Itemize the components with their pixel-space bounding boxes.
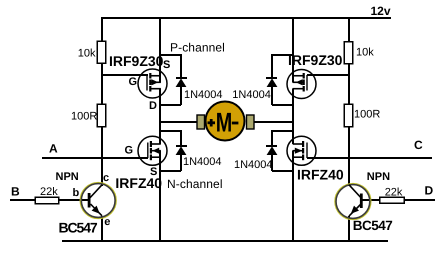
svg-text:B: B (11, 185, 20, 199)
svg-text:C: C (414, 138, 423, 152)
svg-text:c: c (103, 172, 109, 184)
svg-text:BC547: BC547 (59, 219, 98, 235)
svg-text:1N4004: 1N4004 (184, 89, 223, 101)
svg-text:M: M (216, 108, 233, 138)
svg-text:P-channel: P-channel (170, 41, 225, 55)
svg-text:IRF9Z30: IRF9Z30 (109, 53, 164, 69)
svg-text:NPN: NPN (56, 171, 79, 183)
svg-text:A: A (49, 142, 58, 156)
svg-text:N-channel: N-channel (167, 177, 223, 191)
svg-text:1N4004: 1N4004 (232, 89, 271, 101)
svg-text:IRF9Z30: IRF9Z30 (288, 52, 343, 68)
svg-text:IRFZ40: IRFZ40 (115, 175, 162, 191)
svg-text:100R: 100R (71, 111, 97, 123)
svg-text:NPN: NPN (367, 171, 390, 183)
svg-text:10k: 10k (356, 47, 374, 59)
svg-text:G: G (129, 76, 138, 88)
svg-text:12v: 12v (371, 4, 391, 18)
svg-text:e: e (104, 216, 110, 228)
svg-text:b: b (73, 187, 80, 199)
svg-text:IRFZ40: IRFZ40 (297, 167, 344, 183)
svg-text:G: G (125, 145, 134, 157)
svg-text:1N4004: 1N4004 (234, 159, 273, 171)
svg-text:22k: 22k (385, 187, 403, 199)
svg-text:BC547: BC547 (353, 218, 393, 233)
svg-text:10k: 10k (78, 48, 96, 60)
svg-text:22k: 22k (40, 186, 58, 198)
svg-text:100R: 100R (354, 109, 380, 121)
svg-text:1N4004: 1N4004 (183, 156, 222, 168)
svg-text:S: S (163, 59, 170, 71)
svg-text:D: D (425, 184, 434, 198)
svg-text:D: D (149, 100, 157, 112)
